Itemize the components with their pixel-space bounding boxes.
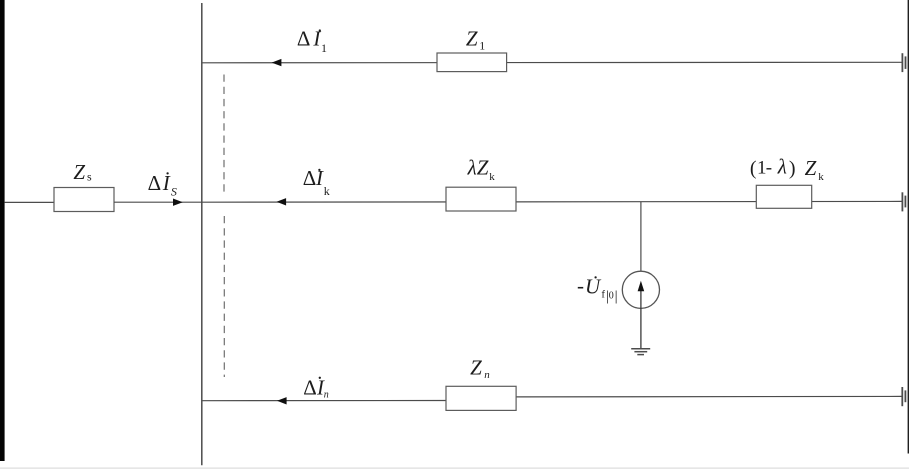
- svg-text:ΔI: ΔI: [303, 375, 325, 399]
- dashed boundary line lower segment: [223, 216, 225, 377]
- svg-text:-: -: [577, 274, 584, 298]
- svg-text:1: 1: [321, 41, 327, 55]
- svg-text:Z: Z: [805, 156, 817, 180]
- current arrow dI_k: [277, 198, 287, 205]
- arrow inside source: [640, 291, 642, 349]
- svg-text:ΔI: ΔI: [303, 166, 324, 190]
- svg-text:s: s: [87, 170, 92, 184]
- wire fault branch vertical: [640, 202, 642, 272]
- svg-text:ΔI: ΔI: [297, 27, 322, 51]
- voltage source -Uf0 circle: [622, 271, 659, 308]
- svg-text:n: n: [484, 369, 490, 381]
- svg-text:0: 0: [609, 290, 614, 301]
- svg-text:S: S: [171, 184, 177, 198]
- svg-text:(: (: [750, 158, 757, 180]
- resistor Z1: [437, 53, 507, 72]
- wire branch k from bus to terminal: [202, 200, 902, 203]
- svg-text:λZ: λZ: [467, 155, 489, 179]
- svg-text:ΔI: ΔI: [148, 171, 171, 195]
- svg-text:k: k: [489, 171, 495, 183]
- svg-text:Z: Z: [466, 27, 478, 51]
- svg-text:λ: λ: [777, 155, 787, 179]
- dashed boundary line upper segment: [223, 75, 225, 196]
- wire system source to Zs: [5, 201, 54, 203]
- bus bar node: [201, 3, 203, 465]
- resistor (1-lambda)Zk: [756, 185, 811, 208]
- resistor Zs: [54, 188, 114, 212]
- svg-text:f: f: [601, 289, 605, 301]
- svg-text:-: -: [766, 158, 772, 179]
- terminal bars branch 1: [901, 53, 903, 72]
- resistor lambda-Zk: [446, 187, 516, 211]
- svg-text:n: n: [324, 390, 329, 401]
- svg-text:U: U: [585, 275, 602, 299]
- wire Zs to bus: [114, 201, 202, 203]
- current arrow dI_n: [277, 397, 287, 404]
- terminal bars branch k: [901, 192, 903, 211]
- svg-text:1: 1: [479, 39, 485, 53]
- svg-text:): ): [789, 158, 796, 180]
- ground symbol: [631, 348, 650, 350]
- svg-text:k: k: [818, 171, 824, 183]
- wire branch n right of Zn: [516, 395, 902, 398]
- current arrow dI_s into bus: [173, 199, 183, 206]
- resistor Zn: [446, 386, 516, 410]
- wire branch 1 from bus to terminal: [202, 61, 902, 64]
- svg-text:|: |: [615, 289, 618, 305]
- wire branch n left of Zn: [202, 400, 446, 402]
- svg-text:Z: Z: [73, 160, 85, 184]
- svg-text:k: k: [324, 184, 330, 198]
- svg-text:Z: Z: [470, 355, 482, 379]
- terminal bars branch n: [901, 387, 903, 406]
- current arrow dI_1: [272, 59, 282, 66]
